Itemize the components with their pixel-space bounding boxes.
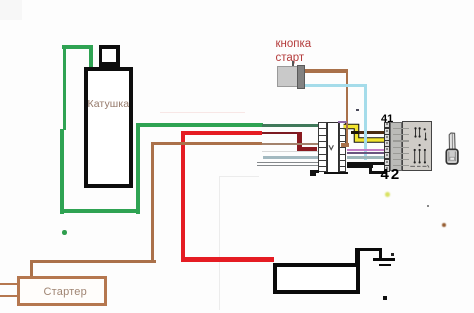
block 41/42 gray connector xyxy=(390,122,402,170)
wire: green drop to coil top xyxy=(89,45,93,67)
wire: blue-gray right xyxy=(347,156,386,159)
wire: purple short top xyxy=(338,121,347,123)
wire: gray thin 1 left xyxy=(257,162,319,163)
node: black dot bottom xyxy=(383,296,387,300)
wire: brown from button vertical xyxy=(346,69,349,146)
ignition key icon xyxy=(442,128,466,168)
wire: dark brown to block 41 xyxy=(351,131,360,134)
wire: light purple xyxy=(347,149,386,151)
wire: green long horizontal to connector xyxy=(136,123,263,127)
label Катушка xyxy=(88,98,136,110)
label 42 xyxy=(381,166,402,183)
wire: green left vertical lower xyxy=(60,129,64,214)
pin box marks xyxy=(386,123,388,125)
connector bottom-left black stub xyxy=(310,170,319,173)
wire: green right vertical xyxy=(136,123,141,214)
faint pink artifact line xyxy=(160,112,245,114)
wire: cyan from button horizontal xyxy=(305,84,367,87)
coil cap (Катушка terminal) xyxy=(99,45,121,67)
starter terminal stub 1 xyxy=(0,283,17,286)
wire: brown stub down to starter box xyxy=(30,260,33,277)
start button body xyxy=(277,66,298,87)
speck 1 xyxy=(427,205,429,207)
node: brown dot xyxy=(442,223,446,227)
wire: dark red thin continuation xyxy=(262,132,299,135)
wire: blue-gray left of connector xyxy=(263,156,319,159)
wire: red bottom horizontal to relay box xyxy=(181,257,275,262)
label Стартер xyxy=(44,286,87,298)
wire: brown horizontal from coil area xyxy=(151,142,262,145)
wire: green from coil top-left, horizontal xyxy=(62,45,93,49)
block pin diagram xyxy=(402,121,432,171)
wire: dark red elbow horizontal into connector pin xyxy=(297,147,317,151)
wire: brown vertical down xyxy=(151,142,154,261)
wire: brown from button horizontal xyxy=(305,69,348,72)
wire: black top right xyxy=(347,162,386,165)
wire: brown bottom horizontal to starter xyxy=(31,260,156,263)
wire: cyan vertical xyxy=(364,84,368,160)
ground wire from box xyxy=(355,248,360,264)
central connector X1 body xyxy=(327,122,339,174)
central connector X1 left pin column xyxy=(318,122,327,172)
block 41/42 crimp teeth xyxy=(393,128,409,129)
wire: black Z horizontal xyxy=(347,165,373,168)
connector bottom thin black edge xyxy=(324,172,348,173)
wire: red top horizontal xyxy=(181,131,263,136)
central connector X1 right pin column xyxy=(339,122,347,172)
wire: red vertical left xyxy=(181,131,186,262)
wire: yellow (black outlined) xyxy=(340,119,390,147)
faint pasted-image border top-left corner xyxy=(0,0,22,20)
wire: green bottom horizontal xyxy=(60,209,140,213)
starter box Стартер xyxy=(17,276,108,306)
wire: dark green segment into connector pin xyxy=(262,124,320,127)
wire: green left vertical upper xyxy=(63,45,67,130)
node: yellow dot xyxy=(385,192,390,197)
speck 2 xyxy=(356,109,358,111)
wire: brown elbow into connector pin xyxy=(341,143,349,146)
coil body Катушка xyxy=(84,67,133,189)
wire: dark purple xyxy=(347,152,386,154)
label кнопка старт xyxy=(276,38,312,50)
ground dot xyxy=(391,253,394,256)
starter terminal stub 2 xyxy=(0,295,17,298)
block 41/42 main body xyxy=(402,121,432,170)
ground symbol bars xyxy=(373,258,395,261)
label v on connector xyxy=(328,144,335,151)
wire: faint gray line xyxy=(262,151,318,152)
faint pasted-image border (screenshot region) xyxy=(219,176,259,177)
start button side (dark) xyxy=(297,65,305,89)
node: green dot xyxy=(62,230,67,235)
relay/unit black box xyxy=(273,263,361,294)
block 41/42 pin column xyxy=(384,122,390,172)
label 41 xyxy=(381,113,393,125)
wire: muted brown continuation into connector pin xyxy=(262,143,319,145)
wire: dark red elbow vertical xyxy=(297,132,302,151)
start button leader line xyxy=(292,61,293,67)
wire: black Z vertical xyxy=(369,165,373,173)
wire: gray thin 2 left xyxy=(257,165,319,166)
wire: black Z bottom xyxy=(369,171,386,174)
